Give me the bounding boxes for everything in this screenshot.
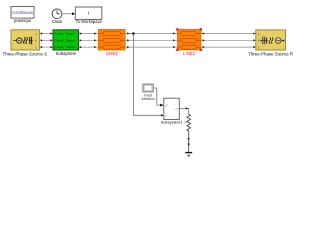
subsystem block (green) — [53, 30, 79, 56]
svg-text:C: C — [258, 46, 260, 49]
clock block — [52, 8, 63, 23]
svg-text:Clock: Clock — [52, 19, 63, 24]
wires LINE1 to LINE2, phases A B C — [125, 32, 177, 48]
wire subsystem1 output to resistor — [179, 107, 188, 114]
svg-text:Conn6: Conn6 — [66, 45, 75, 49]
svg-text:cT: cT — [175, 107, 178, 111]
resistor R — [185, 114, 191, 131]
svg-text:Conn4: Conn4 — [66, 32, 75, 36]
svg-text:Conn5: Conn5 — [66, 38, 75, 42]
wires LINE2 to source R, phases A B C — [201, 32, 256, 48]
svg-text:Conn1: Conn1 — [54, 32, 63, 36]
wire fault initiation to subsystem1 — [157, 88, 164, 107]
LINE1 block (distributed parameters line) — [99, 30, 126, 57]
svg-text:Conn2: Conn2 — [54, 38, 63, 42]
powergui block U1 — [11, 7, 34, 24]
wire resistor to ground — [188, 131, 190, 152]
svg-text:powergui: powergui — [14, 18, 31, 23]
svg-text:Subsystem: Subsystem — [56, 51, 77, 56]
ground symbol — [185, 153, 192, 157]
wires subsystem to LINE1, phases A B C — [79, 32, 99, 48]
svg-text:Conn3: Conn3 — [54, 45, 63, 49]
svg-text:LINE1: LINE1 — [106, 51, 119, 56]
wires source S to subsystem, phases A B C — [40, 32, 53, 48]
svg-text:To Workspace: To Workspace — [76, 19, 103, 24]
wire tap vertical down from junction — [133, 34, 162, 116]
arrowhead into subsystem1 lower port — [161, 114, 164, 116]
svg-text:LINE2: LINE2 — [183, 51, 196, 56]
svg-text:Three-Phase Source R: Three-Phase Source R — [248, 51, 293, 56]
svg-text:Continuous: Continuous — [12, 10, 33, 15]
three-phase source S — [2, 30, 47, 57]
svg-text:Three-Phase Source S: Three-Phase Source S — [2, 51, 47, 56]
to-workspace block — [75, 7, 102, 24]
wire clock to workspace — [62, 12, 75, 15]
LINE2 block (distributed parameters line, selected) — [176, 28, 202, 56]
svg-text:Subsystem1: Subsystem1 — [161, 119, 184, 124]
fault initiation block — [142, 84, 157, 101]
subsystem1 block — [161, 98, 184, 124]
three-phase source R — [248, 30, 293, 57]
svg-text:initiation: initiation — [142, 97, 155, 101]
svg-text:cT: cT — [165, 103, 168, 107]
svg-text:C: C — [35, 46, 37, 49]
junction node on phase A tap — [132, 32, 135, 35]
